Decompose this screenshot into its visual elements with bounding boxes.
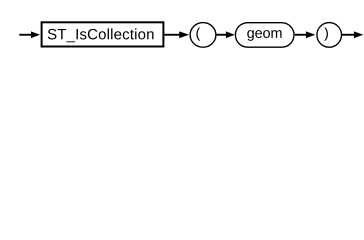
parameter geom stadium <box>235 23 294 48</box>
label geom <box>247 30 281 41</box>
label ) <box>324 28 328 41</box>
literal ) oval <box>317 23 342 48</box>
arrowhead exit <box>354 31 363 38</box>
arrowhead into ) <box>306 31 315 38</box>
terminal box ST_IsCollection <box>42 22 164 46</box>
arrowhead into ( <box>179 31 189 38</box>
wire entry <box>19 34 32 36</box>
arrowhead into geom <box>226 31 235 38</box>
literal ( oval <box>190 23 216 48</box>
arrowhead into ST_IsCollection <box>31 31 40 38</box>
wire ( to geom <box>216 34 227 36</box>
wire exit <box>342 34 356 36</box>
label ST_IsCollection <box>48 28 154 42</box>
wire box to ( <box>164 34 180 36</box>
label ( <box>196 28 200 41</box>
wire geom to ) <box>295 34 307 36</box>
